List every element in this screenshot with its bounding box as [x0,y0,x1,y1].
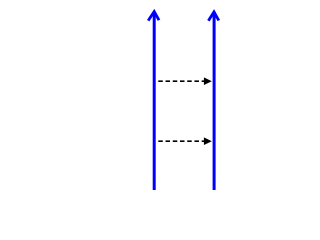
wire [153,12,156,190]
arrowhead (open V, wire 2 current direction up) [208,12,218,21]
wire (dashed shaft) [158,140,204,142]
wire (dashed shaft) [158,80,204,82]
force arrow F1 (upper dashed arrow from wire 1 toward wire 2) [158,77,212,85]
wire [213,12,216,190]
arrowhead (open V, wire 1 current direction up) [148,12,159,21]
wire 2 (right current-carrying wire, current upward) [208,12,218,190]
arrowhead (filled, pointing right) [204,137,212,145]
force arrow F2 (lower dashed arrow from wire 1 toward wire 2) [158,137,212,145]
arrowhead (filled, pointing right) [204,77,212,85]
wire 1 (left current-carrying wire, current upward) [148,12,159,190]
